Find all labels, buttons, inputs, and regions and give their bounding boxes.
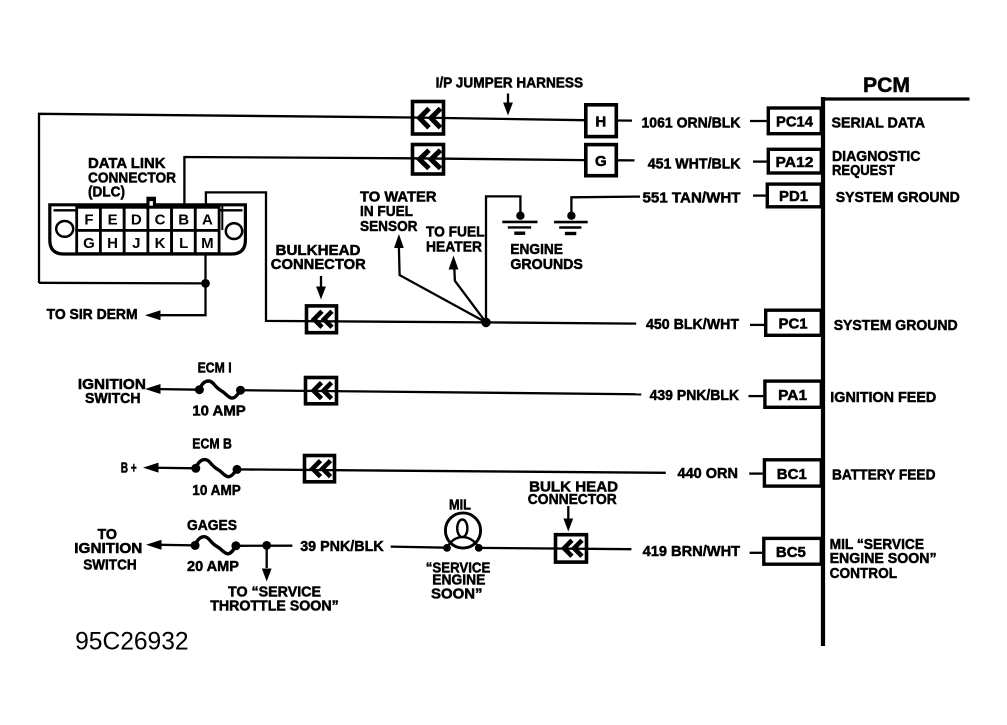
- svg-text:450 BLK/WHT: 450 BLK/WHT: [646, 317, 739, 333]
- svg-text:GAGES: GAGES: [187, 518, 237, 534]
- svg-text:CONNECTOR: CONNECTOR: [528, 492, 617, 508]
- wire 1061 ORN/BLK from DLC loop to H connector: [39, 114, 584, 283]
- svg-text:ECM I: ECM I: [198, 361, 232, 377]
- pin box PA1: [765, 381, 821, 407]
- label TO IGNITION SWITCH: [74, 527, 142, 573]
- DLC right mounting hole: [226, 223, 242, 239]
- arrowhead ignition switch: [145, 384, 161, 394]
- svg-text:95C26932: 95C26932: [75, 627, 189, 655]
- arrowhead to water in fuel sensor: [394, 234, 404, 248]
- arrowhead to ignition switch: [146, 540, 162, 550]
- wire 451 WHT/BLK from DLC pin B to G connector: [184, 157, 584, 206]
- pin BC5 stub wire: [750, 552, 763, 554]
- svg-text:IGNITION: IGNITION: [74, 541, 142, 557]
- wire junction M to left riser: [39, 282, 206, 285]
- svg-text:PC1: PC1: [779, 316, 808, 333]
- svg-text:G: G: [83, 235, 95, 252]
- pin PC1 stub wire: [750, 324, 764, 326]
- junction dot DLC-M / riser: [201, 279, 210, 288]
- svg-text:MIL: MIL: [449, 498, 471, 514]
- fuse ECM I 10 AMP: [195, 381, 245, 398]
- wire TO WATER IN FUEL SENSOR branch: [399, 247, 486, 322]
- svg-text:PA12: PA12: [776, 154, 814, 171]
- svg-text:L: L: [179, 235, 188, 252]
- svg-text:SWITCH: SWITCH: [85, 391, 141, 407]
- svg-text:B +: B +: [121, 461, 137, 477]
- svg-text:20 AMP: 20 AMP: [187, 559, 239, 575]
- svg-text:CONTROL: CONTROL: [830, 565, 898, 582]
- DLC pin letters row 2: G H J K L M: [83, 235, 214, 252]
- svg-text:TO FUEL: TO FUEL: [426, 225, 485, 241]
- label ENGINE GROUNDS: [510, 242, 583, 273]
- MIL lamp symbol: [443, 513, 483, 552]
- svg-text:PD1: PD1: [779, 188, 808, 205]
- connector box G: [586, 145, 617, 176]
- label BULK HEAD CONNECTOR (MIL row): [528, 479, 618, 508]
- PCM module boundary line: [821, 97, 970, 646]
- arrow I/P jumper harness: [503, 94, 513, 116]
- bulkhead connector row4 (450 wire): [307, 306, 337, 333]
- svg-text:(DLC): (DLC): [88, 185, 125, 201]
- svg-text:HEATER: HEATER: [426, 239, 482, 255]
- pin PC14 stub wire: [750, 120, 767, 122]
- arrowhead TO SIR DERM: [145, 310, 161, 320]
- arrowhead B+: [143, 463, 159, 473]
- svg-text:B: B: [178, 211, 189, 228]
- svg-text:PA1: PA1: [778, 387, 807, 404]
- label TO SERVICE THROTTLE SOON: [210, 584, 339, 614]
- pin box PC14: [768, 108, 821, 134]
- wire stub G box to label 451: [618, 159, 635, 161]
- wire 551 TAN/WHT from engine ground 2: [571, 197, 640, 213]
- fuse GAGES 20 AMP: [191, 537, 241, 554]
- wire 439 PNK/BLK row: [151, 389, 641, 394]
- pin PD1 stub wire: [753, 194, 766, 196]
- junction node 39 PNK/BLK branch: [262, 541, 271, 550]
- svg-text:1061 ORN/BLK: 1061 ORN/BLK: [642, 115, 741, 131]
- svg-text:SOON”: SOON”: [431, 587, 483, 603]
- svg-text:ENGINE: ENGINE: [510, 242, 563, 258]
- arrow bulk head connector label (MIL row): [563, 506, 573, 532]
- svg-text:419 BRN/WHT: 419 BRN/WHT: [643, 544, 741, 560]
- svg-text:551 TAN/WHT: 551 TAN/WHT: [643, 191, 741, 207]
- arrow bulkhead connector label: [316, 276, 326, 300]
- label TO WATER IN FUEL SENSOR: [360, 189, 437, 235]
- fuse ECM B 10 AMP: [191, 460, 241, 477]
- wire drop to service throttle soon: [262, 545, 272, 581]
- label SERVICE ENGINE SOON: [426, 561, 491, 603]
- bulkhead connector row6: [305, 456, 335, 482]
- connector box H: [586, 105, 617, 137]
- pin box PA12: [768, 149, 821, 173]
- bulkhead connector row1: [413, 102, 444, 135]
- svg-text:439 PNK/BLK: 439 PNK/BLK: [650, 388, 740, 404]
- svg-text:M: M: [201, 235, 214, 252]
- wire stub H box to label 1061: [618, 119, 632, 121]
- svg-text:C: C: [155, 211, 166, 228]
- engine ground 2 symbol: [554, 212, 588, 234]
- label IGNITION SWITCH: [78, 377, 146, 407]
- wire 440 ORN row: [149, 468, 666, 473]
- svg-text:440 ORN: 440 ORN: [678, 466, 739, 482]
- svg-text:451 WHT/BLK: 451 WHT/BLK: [648, 156, 741, 172]
- svg-text:A: A: [202, 211, 213, 228]
- svg-text:E: E: [108, 211, 118, 228]
- pin PA1 stub wire: [749, 395, 764, 397]
- svg-text:GROUNDS: GROUNDS: [510, 257, 583, 273]
- DLC pin letters row 1: F E D C B A: [84, 211, 213, 228]
- svg-text:IN FUEL: IN FUEL: [360, 204, 413, 220]
- svg-text:G: G: [595, 153, 607, 170]
- wire 419 BRN/WHT row left segment: [152, 545, 631, 550]
- label DATA LINK CONNECTOR (DLC): [88, 156, 176, 201]
- svg-text:D: D: [131, 211, 142, 228]
- svg-text:10 AMP: 10 AMP: [192, 404, 246, 420]
- wire DLC pin M to SIR DERM junction: [151, 254, 206, 315]
- wire engine ground 1 branch: [486, 196, 520, 322]
- svg-text:THROTTLE SOON”: THROTTLE SOON”: [210, 599, 339, 615]
- bulkhead connector row7: [556, 535, 587, 562]
- pin box BC5: [764, 538, 822, 564]
- svg-text:REQUEST: REQUEST: [832, 162, 896, 179]
- label TO FUEL HEATER: [426, 225, 485, 256]
- svg-text:BC1: BC1: [777, 466, 807, 483]
- junction node 450/grounds: [481, 318, 491, 328]
- pin box BC1: [764, 460, 821, 486]
- DLC left mounting hole: [56, 221, 73, 237]
- data link connector DLC body: [50, 205, 246, 254]
- svg-text:F: F: [84, 211, 93, 228]
- engine ground 1 symbol: [502, 212, 537, 234]
- svg-text:SWITCH: SWITCH: [83, 557, 137, 573]
- wire 450 BLK/WHT from DLC pin A through bulkhead to label: [206, 192, 636, 323]
- label DIAGNOSTIC REQUEST: [832, 148, 921, 179]
- svg-text:H: H: [595, 113, 606, 130]
- bulkhead connector row2: [413, 145, 444, 175]
- DLC pin grid cells: [77, 207, 219, 253]
- arrowhead to fuel heater: [449, 256, 459, 270]
- svg-text:SENSOR: SENSOR: [360, 219, 418, 235]
- svg-text:J: J: [132, 235, 140, 252]
- svg-text:SYSTEM GROUND: SYSTEM GROUND: [834, 317, 958, 334]
- label MIL SERVICE ENGINE SOON CONTROL: [830, 536, 937, 582]
- svg-text:PCM: PCM: [863, 73, 910, 97]
- DLC keying tab: [146, 197, 156, 206]
- pin box PD1: [767, 184, 821, 207]
- pin PA12 stub wire: [753, 160, 767, 162]
- svg-text:I/P JUMPER HARNESS: I/P JUMPER HARNESS: [436, 75, 584, 91]
- svg-text:39 PNK/BLK: 39 PNK/BLK: [300, 539, 384, 555]
- svg-text:BC5: BC5: [776, 544, 806, 561]
- label BULKHEAD CONNECTOR: [271, 243, 366, 273]
- pin BC1 stub wire: [749, 472, 763, 474]
- svg-text:K: K: [155, 235, 166, 252]
- svg-text:PC14: PC14: [776, 114, 814, 131]
- svg-text:TO SIR DERM: TO SIR DERM: [47, 307, 138, 323]
- svg-text:CONNECTOR: CONNECTOR: [271, 257, 366, 273]
- bulkhead connector row5: [306, 378, 337, 404]
- svg-text:SYSTEM GROUND: SYSTEM GROUND: [836, 189, 960, 206]
- svg-text:IGNITION FEED: IGNITION FEED: [830, 389, 936, 406]
- wire TO FUEL HEATER branch: [454, 268, 486, 322]
- svg-text:ECM B: ECM B: [192, 436, 232, 452]
- svg-text:TO WATER: TO WATER: [360, 189, 437, 205]
- svg-text:SERIAL DATA: SERIAL DATA: [832, 115, 926, 132]
- svg-text:10 AMP: 10 AMP: [192, 483, 241, 499]
- svg-text:H: H: [107, 235, 118, 252]
- svg-text:BATTERY FEED: BATTERY FEED: [832, 467, 936, 484]
- pin box PC1: [766, 310, 822, 335]
